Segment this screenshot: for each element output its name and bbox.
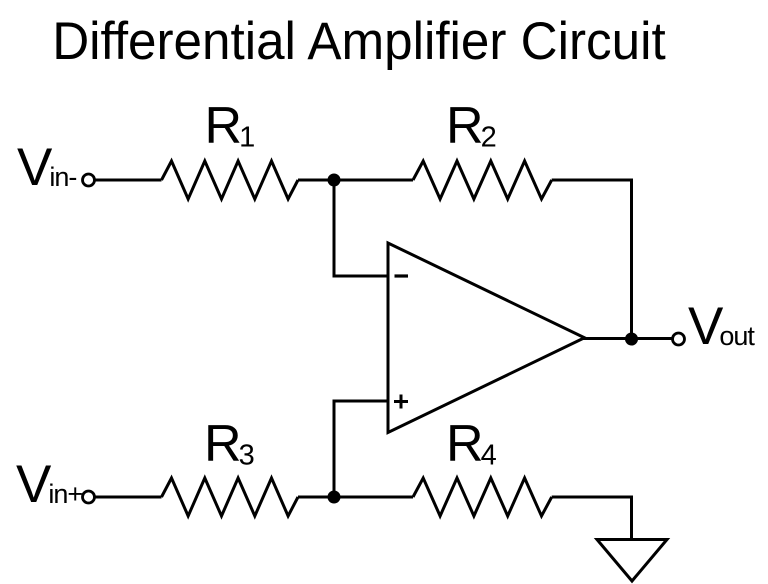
wire node A down to inverting input — [333, 180, 336, 276]
wire to inverting input of op-amp — [333, 275, 389, 278]
op-amp U1 — [388, 243, 585, 433]
wire feedback vertical down to output node — [630, 179, 633, 340]
resistor R1 — [162, 161, 299, 199]
node B junction dot — [328, 491, 341, 504]
wire node B up to non-inverting input — [333, 401, 336, 497]
output node junction dot — [625, 333, 638, 346]
terminal Vout open circle — [673, 333, 685, 345]
op-amp inverting input minus sign — [395, 274, 409, 277]
node A junction dot — [328, 174, 341, 187]
wire Vin- terminal to R1 — [95, 179, 162, 182]
terminal Vin- open circle — [83, 174, 95, 186]
wire op-amp output to Vout terminal — [583, 337, 673, 340]
resistor R3 — [162, 478, 299, 516]
wire vertical down to ground — [630, 496, 633, 542]
op-amp non-inverting input plus sign — [394, 400, 408, 403]
svg-text:Differential Amplifier Circuit: Differential Amplifier Circuit — [52, 12, 666, 71]
wire R2 to output net — [552, 179, 632, 182]
ground symbol — [597, 540, 667, 582]
wire R3 to node B — [298, 496, 334, 499]
wire R1 to node A — [298, 179, 334, 182]
wire node B to R4 — [334, 496, 413, 499]
resistor R2 — [413, 161, 552, 199]
resistor R4 — [413, 478, 552, 516]
wire R4 to ground drop — [552, 496, 632, 499]
wire node A to R2 — [334, 179, 413, 182]
wire Vin+ terminal to R3 — [95, 496, 162, 499]
wire to non-inverting input of op-amp — [333, 400, 389, 403]
terminal Vin+ open circle — [83, 491, 95, 503]
